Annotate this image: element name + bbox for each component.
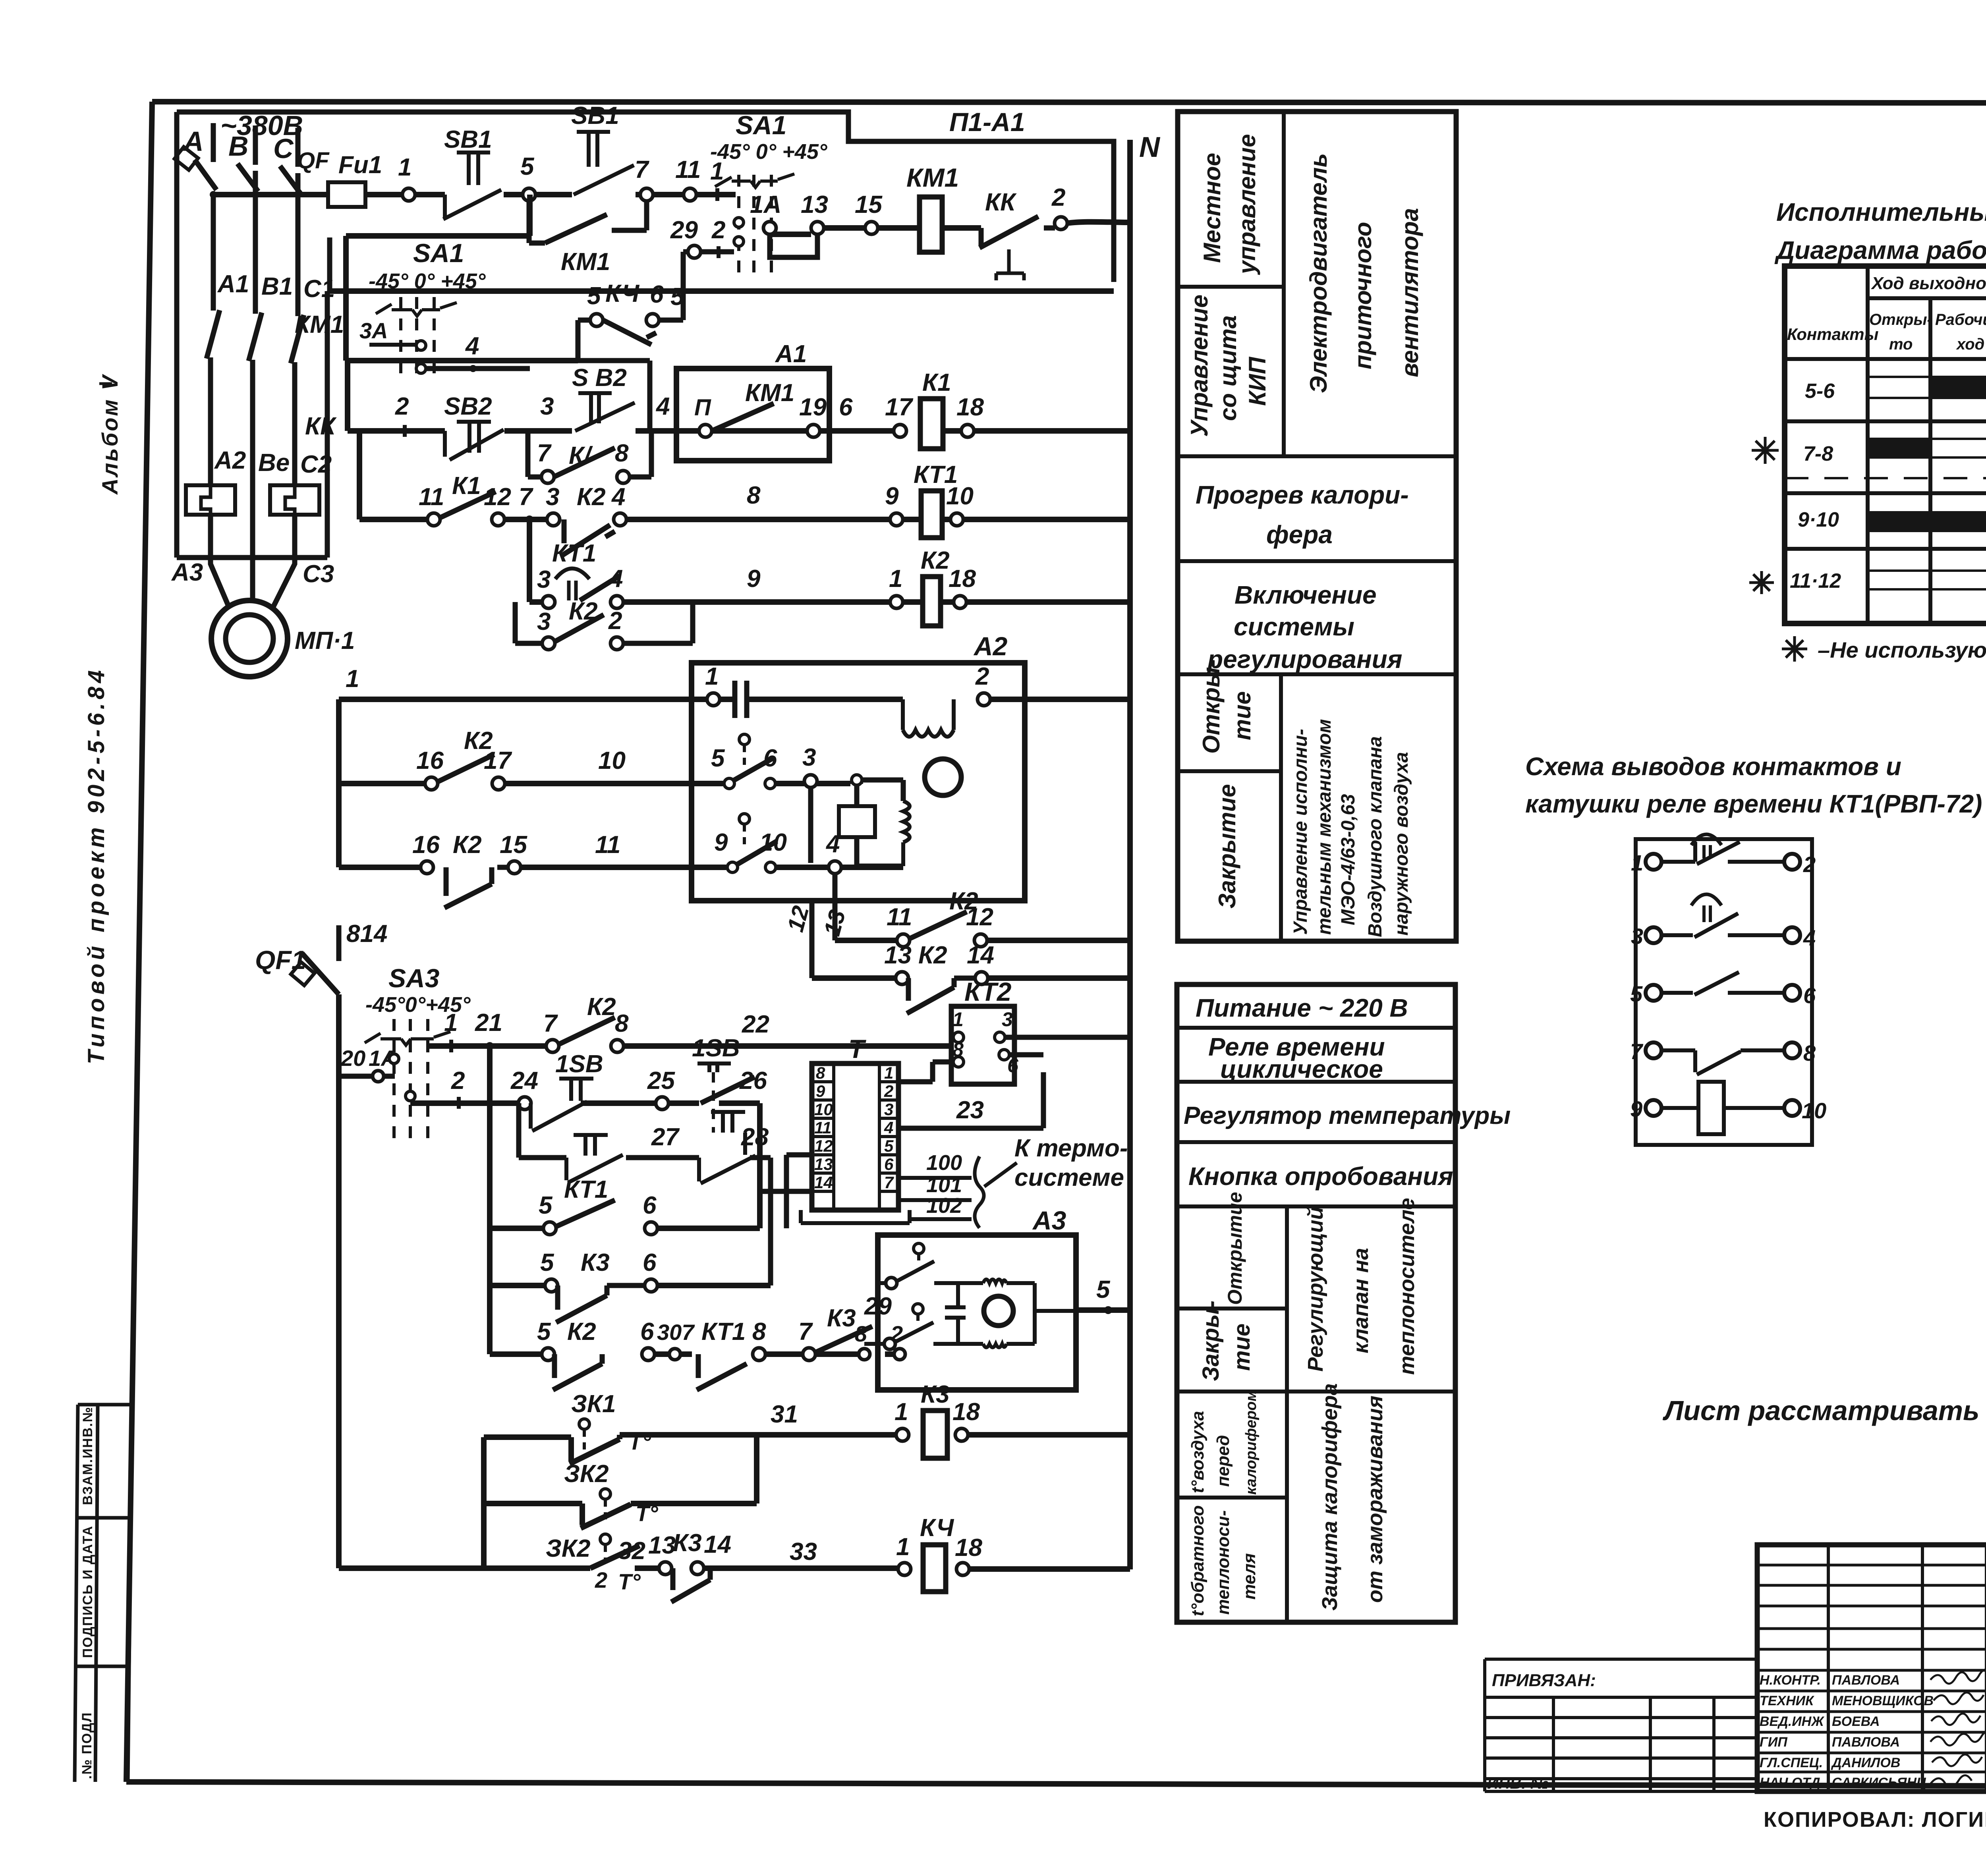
node 15 xyxy=(508,861,521,874)
phase A lower vertical xyxy=(208,357,213,485)
pins 7-8 contact NC xyxy=(1646,1042,1661,1058)
limit switch contact 9-10 xyxy=(714,814,787,872)
wire: QF1 bus down xyxy=(336,994,342,1568)
svg-text:1: 1 xyxy=(444,1009,458,1036)
svg-text:Откры-: Откры- xyxy=(1198,659,1225,754)
circuit breaker QF1 xyxy=(255,945,339,994)
svg-text:САРКИСЬЯНЦ: САРКИСЬЯНЦ xyxy=(1832,1775,1926,1790)
node 12 xyxy=(492,513,504,526)
svg-text:ЗК2: ЗК2 xyxy=(564,1460,609,1488)
svg-text:8: 8 xyxy=(816,1063,825,1082)
node 1 xyxy=(890,596,903,608)
thermal sensor contact SK2 xyxy=(484,1435,757,1528)
svg-text:Ве: Ве xyxy=(258,449,290,477)
junction phase A to bus xyxy=(210,191,217,198)
svg-text:А3: А3 xyxy=(1032,1206,1066,1235)
neutral bus N xyxy=(1127,140,1133,1569)
svg-text:КМ1: КМ1 xyxy=(906,163,959,192)
svg-text:15: 15 xyxy=(855,191,883,218)
A3 internal wiring xyxy=(933,1283,1035,1344)
svg-text:К2: К2 xyxy=(577,483,606,511)
left annex of title block xyxy=(1485,1659,1757,1792)
node 1 xyxy=(402,188,415,201)
svg-text:9: 9 xyxy=(714,829,728,856)
title block xyxy=(1757,1545,1986,1791)
wire: tap 20-1A xyxy=(339,1074,395,1079)
svg-text:t°обратного: t°обратного xyxy=(1188,1505,1207,1616)
svg-text:5: 5 xyxy=(711,745,725,772)
svg-text:100: 100 xyxy=(926,1151,962,1175)
svg-text:SА3: SА3 xyxy=(388,963,439,993)
svg-text:5: 5 xyxy=(539,1192,553,1219)
svg-text:12: 12 xyxy=(966,903,993,931)
svg-text:5: 5 xyxy=(670,283,685,311)
svg-text:С: С xyxy=(273,133,294,164)
svg-text:А2: А2 xyxy=(214,447,246,474)
svg-text:3: 3 xyxy=(537,566,551,593)
svg-text:3: 3 xyxy=(540,393,554,420)
node 16 xyxy=(421,861,433,874)
svg-text:1: 1 xyxy=(896,1533,910,1561)
wire: 23 link T to KT2 xyxy=(898,1055,1043,1128)
actuator box A2 xyxy=(692,663,1025,901)
svg-text:31: 31 xyxy=(771,1401,798,1428)
svg-text:К3: К3 xyxy=(827,1305,856,1332)
svg-text:14: 14 xyxy=(967,942,994,969)
svg-text:КК: КК xyxy=(985,189,1017,216)
svg-text:SВ1: SВ1 xyxy=(571,102,619,129)
svg-text:К3: К3 xyxy=(921,1381,950,1408)
svg-text:НАЧ.ОТД: НАЧ.ОТД xyxy=(1760,1775,1820,1790)
svg-text:КЧ: КЧ xyxy=(920,1514,954,1542)
svg-text:К2: К2 xyxy=(587,993,616,1021)
svg-text:управление: управление xyxy=(1234,134,1260,275)
svg-text:18: 18 xyxy=(949,565,976,593)
wire: sub rung 27-28 xyxy=(519,1103,771,1285)
left bus for actuator rungs xyxy=(336,699,342,867)
svg-text:Диаграмма работы контактов: Диаграмма работы контактов xyxy=(1774,236,1986,264)
svg-text:23: 23 xyxy=(956,1096,984,1124)
svg-text:6: 6 xyxy=(839,394,853,421)
svg-text:вентилятора: вентилятора xyxy=(1397,208,1423,377)
svg-text:11: 11 xyxy=(675,156,701,183)
svg-text:22: 22 xyxy=(742,1011,769,1038)
pushbutton SB2 (start, NO) xyxy=(572,364,635,431)
apparatus box A1 xyxy=(676,340,829,461)
node 2 xyxy=(1055,217,1067,230)
svg-text:17: 17 xyxy=(885,394,913,421)
svg-text:16: 16 xyxy=(412,831,440,859)
svg-text:18: 18 xyxy=(956,394,984,421)
svg-text:6: 6 xyxy=(640,1318,654,1345)
svg-text:циклическое: циклическое xyxy=(1220,1055,1383,1083)
svg-text:БОЕВА: БОЕВА xyxy=(1832,1714,1880,1729)
svg-text:QF1: QF1 xyxy=(255,945,306,975)
motor circle in A2 xyxy=(925,759,961,795)
svg-text:4: 4 xyxy=(611,483,625,511)
svg-text:3: 3 xyxy=(546,483,559,511)
svg-text:.№ ПОДЛ: .№ ПОДЛ xyxy=(79,1712,95,1779)
relay KT1 pinout diagram xyxy=(1630,834,1826,1145)
phase A lead-in xyxy=(211,123,216,162)
heater element KK phase A xyxy=(186,485,235,515)
selector switch SA1 (lower, in box) xyxy=(346,195,578,379)
svg-text:С3: С3 xyxy=(303,560,334,588)
svg-text:10: 10 xyxy=(814,1100,833,1119)
svg-text:МЕНОВЩИКОВ: МЕНОВЩИКОВ xyxy=(1832,1693,1934,1708)
svg-text:29: 29 xyxy=(670,216,698,244)
node 17 xyxy=(894,425,906,437)
svg-text:2: 2 xyxy=(395,393,409,420)
svg-text:Альбом V: Альбом V xyxy=(97,374,122,495)
capacitor in A3 xyxy=(945,1307,966,1318)
limit contact in A3 lower xyxy=(913,1304,923,1314)
svg-text:5: 5 xyxy=(884,1137,894,1155)
svg-text:К2: К2 xyxy=(567,1318,596,1345)
pins 3-4 time contact xyxy=(1646,927,1661,943)
wire: rung 5 KT1 6 xyxy=(490,1226,760,1231)
relay coil K2 xyxy=(923,577,941,626)
svg-text:С1: С1 xyxy=(303,275,335,303)
svg-text:Управление: Управление xyxy=(1186,295,1213,437)
svg-text:МП·1: МП·1 xyxy=(295,627,355,654)
svg-text:8: 8 xyxy=(1803,1040,1816,1065)
svg-text:от замораживания: от замораживания xyxy=(1363,1395,1387,1603)
transformer winding in A2 xyxy=(903,699,954,737)
relay contact K1 self-hold xyxy=(528,431,651,483)
svg-text:КЧ: КЧ xyxy=(605,280,639,307)
svg-text:Откры-: Откры- xyxy=(1869,311,1932,328)
svg-text:13: 13 xyxy=(819,907,850,938)
svg-text:5: 5 xyxy=(520,153,535,180)
svg-text:Защита калорифера: Защита калорифера xyxy=(1318,1383,1342,1611)
svg-text:Управление исполни-: Управление исполни- xyxy=(1290,729,1311,935)
svg-text:3: 3 xyxy=(802,744,816,771)
svg-text:QF: QF xyxy=(297,148,330,174)
svg-text:ПРИВЯЗАН:: ПРИВЯЗАН: xyxy=(1492,1671,1596,1690)
svg-text:17: 17 xyxy=(484,747,512,774)
svg-text:2: 2 xyxy=(1803,852,1816,877)
phase B lead-in xyxy=(253,125,258,165)
svg-text:SА1: SА1 xyxy=(413,238,464,268)
svg-text:Н.КОНТР.: Н.КОНТР. xyxy=(1760,1673,1821,1688)
wire: KT2 pin3 to N xyxy=(1005,1035,1130,1040)
wire: KT1 delayed contact rung to K2 coil xyxy=(529,519,1130,602)
svg-text:7: 7 xyxy=(537,440,552,467)
svg-text:Регулятор температуры: Регулятор температуры xyxy=(1184,1102,1511,1129)
svg-text:25: 25 xyxy=(647,1067,675,1094)
svg-text:ход: ход xyxy=(1956,336,1984,353)
svg-text:11: 11 xyxy=(595,831,620,859)
svg-text:тие: тие xyxy=(1229,691,1256,740)
svg-text:С2: С2 xyxy=(300,451,332,478)
thermal relay contact KK xyxy=(979,189,1055,280)
node 2 tick xyxy=(717,246,721,258)
svg-text:системе: системе xyxy=(1014,1164,1124,1191)
svg-text:10: 10 xyxy=(946,483,974,510)
pins 9-10 coil xyxy=(1646,1100,1661,1116)
left control bus xyxy=(487,1046,493,1354)
node 1 tick xyxy=(715,188,719,201)
svg-text:К2: К2 xyxy=(453,831,482,859)
svg-text:2: 2 xyxy=(451,1067,465,1094)
schematic outer border xyxy=(177,112,1114,558)
relay coil K4 xyxy=(898,1563,911,1575)
svg-text:К1: К1 xyxy=(452,472,481,500)
svg-text:7: 7 xyxy=(543,1010,558,1037)
svg-text:5: 5 xyxy=(1630,981,1643,1006)
svg-text:1: 1 xyxy=(705,663,719,690)
svg-text:со щита: со щита xyxy=(1215,315,1241,421)
relay contact K2 bypass xyxy=(515,598,693,650)
svg-text:КМ1: КМ1 xyxy=(561,248,610,276)
wire: rung 2-24-1SB-25-1SB-26 xyxy=(410,1103,760,1228)
svg-text:КИП: КИП xyxy=(1244,356,1271,406)
svg-text:3: 3 xyxy=(537,608,551,635)
svg-text:7: 7 xyxy=(884,1173,894,1192)
junction to KT1 branch xyxy=(525,515,533,523)
wire: rung 13 K3 14 33 to KCh coil xyxy=(658,1565,898,1571)
svg-text:7: 7 xyxy=(798,1318,813,1345)
wire: A2 outputs down xyxy=(812,874,835,978)
svg-text:ПОДПИСЬ И ДАТА: ПОДПИСЬ И ДАТА xyxy=(80,1525,95,1658)
pushbutton 1SB (NC) xyxy=(531,1050,603,1131)
svg-text:2: 2 xyxy=(884,1082,893,1100)
svg-text:ВЕД.ИНЖ: ВЕД.ИНЖ xyxy=(1760,1714,1825,1729)
pushbutton SB2 (stop, NC) xyxy=(444,393,504,500)
svg-text:Т°: Т° xyxy=(618,1569,641,1594)
left margin stamp column xyxy=(75,1405,132,1782)
svg-text:1SВ: 1SВ xyxy=(692,1035,740,1062)
limit switch contact 5-6 xyxy=(711,734,777,789)
time relay KT2 box xyxy=(951,977,1019,1084)
svg-text:регулирования: регулирования xyxy=(1207,645,1402,674)
svg-text:11·12: 11·12 xyxy=(1790,569,1841,593)
phase C vertical xyxy=(296,173,301,316)
node 4 xyxy=(614,513,626,526)
wire: feed line 1 to actuator A2 xyxy=(339,697,1130,702)
svg-text:К3: К3 xyxy=(581,1249,610,1276)
svg-text:SВ2: SВ2 xyxy=(444,393,492,420)
node 18 xyxy=(954,596,966,608)
svg-text:Закрытие: Закрытие xyxy=(1214,784,1240,909)
function table upper xyxy=(1178,112,1456,941)
svg-text:катушки реле времени КТ1(РВП-7: катушки реле времени КТ1(РВП-72) xyxy=(1525,789,1982,818)
thermo system outputs 100 101 102 xyxy=(898,1135,1128,1228)
svg-text:1: 1 xyxy=(1631,850,1643,875)
svg-text:ДАНИЛОВ: ДАНИЛОВ xyxy=(1831,1755,1900,1770)
svg-text:наружного воздуха: наружного воздуха xyxy=(1391,752,1412,936)
pushbutton contact 27 xyxy=(566,1135,623,1183)
node 16 xyxy=(425,777,438,790)
svg-text:А1: А1 xyxy=(217,270,249,298)
svg-text:К2: К2 xyxy=(921,547,950,574)
svg-text:ГЛ.СПЕЦ.: ГЛ.СПЕЦ. xyxy=(1760,1755,1823,1770)
thermal sensor contact 3K2 lower xyxy=(339,1534,658,1594)
svg-text:7-8: 7-8 xyxy=(1803,442,1833,465)
inductor bottom xyxy=(983,1344,1007,1347)
svg-text:14: 14 xyxy=(704,1531,731,1558)
selector switch SA3 xyxy=(365,963,471,1140)
relay coil K3 xyxy=(896,1428,909,1441)
svg-text:ТЕХНИК: ТЕХНИК xyxy=(1760,1693,1814,1708)
svg-text:тие: тие xyxy=(1229,1324,1255,1371)
node 17 xyxy=(492,777,505,790)
phase C lower vertical xyxy=(292,362,298,485)
svg-text:Типовой проект 902-5-6.84: Типовой проект 902-5-6.84 xyxy=(83,667,109,1064)
node 3 xyxy=(804,775,817,787)
svg-text:1: 1 xyxy=(894,1398,908,1426)
svg-text:Электродвигатель: Электродвигатель xyxy=(1305,153,1332,393)
svg-text:2: 2 xyxy=(975,663,989,690)
wire: KT2 pin8 tap xyxy=(898,1062,953,1082)
svg-text:2: 2 xyxy=(595,1567,607,1592)
svg-text:4: 4 xyxy=(884,1118,893,1137)
wire: rung 5 K2 6 307 KT1 8 7 K3 29 8 2 xyxy=(490,1351,894,1357)
svg-text:фера: фера xyxy=(1266,520,1333,549)
svg-text:Fu1: Fu1 xyxy=(338,151,382,179)
wire: A3 to N rung 5 xyxy=(1076,1307,1130,1313)
contactor KM1 main contacts xyxy=(207,310,344,363)
phase B lower vertical xyxy=(250,360,255,558)
svg-text:МЭО-4/63-0,63: МЭО-4/63-0,63 xyxy=(1338,794,1359,925)
svg-text:102: 102 xyxy=(926,1194,962,1218)
svg-text:5-6: 5-6 xyxy=(1805,380,1835,403)
wire: rung 5 K3 6 xyxy=(490,1283,771,1288)
svg-text:ГИП: ГИП xyxy=(1760,1735,1788,1750)
wire: main control bus rung 1 xyxy=(213,192,736,197)
svg-text:-45° 0° +45°: -45° 0° +45° xyxy=(369,269,486,293)
svg-text:10: 10 xyxy=(598,747,626,774)
wire: link to SB2 rung xyxy=(578,361,650,431)
svg-text:7: 7 xyxy=(1630,1039,1644,1064)
svg-text:2: 2 xyxy=(608,607,622,635)
svg-text:теплоносителе: теплоносителе xyxy=(1395,1198,1419,1375)
svg-text:6: 6 xyxy=(650,281,664,308)
selector switch SA1 (upper) xyxy=(710,110,827,278)
svg-text:9·10: 9·10 xyxy=(1798,508,1839,531)
svg-text:33: 33 xyxy=(790,1538,817,1565)
svg-text:перед: перед xyxy=(1213,1435,1233,1487)
wire: K2/KT1 rung xyxy=(359,431,1130,519)
svg-text:теля: теля xyxy=(1240,1553,1259,1600)
svg-text:К термо-: К термо- xyxy=(1014,1135,1128,1162)
svg-text:6: 6 xyxy=(763,745,777,772)
svg-text:32: 32 xyxy=(618,1537,645,1565)
svg-text:10: 10 xyxy=(1802,1098,1826,1123)
node 13 xyxy=(811,222,824,234)
svg-text:12: 12 xyxy=(814,1137,833,1155)
svg-text:t°воздуха: t°воздуха xyxy=(1188,1411,1207,1493)
node 11 xyxy=(684,188,696,201)
tick 2 xyxy=(403,425,407,437)
svg-text:13: 13 xyxy=(814,1155,833,1173)
relay contact K2 (NC) xyxy=(444,867,508,908)
note: not used xyxy=(1782,636,1986,662)
wire: rung 16-15-11 limit switch close xyxy=(339,865,903,870)
svg-text:5: 5 xyxy=(540,1249,554,1276)
wire: T box links left xyxy=(760,1155,812,1228)
svg-text:ПАВЛОВА: ПАВЛОВА xyxy=(1832,1673,1900,1688)
svg-text:Прогрев калори-: Прогрев калори- xyxy=(1196,481,1409,509)
svg-text:1: 1 xyxy=(889,565,902,593)
brake relay box in A2 xyxy=(839,806,875,837)
svg-text:11: 11 xyxy=(887,903,912,931)
pushbutton SB1 (stop, NC) xyxy=(443,126,501,219)
svg-text:-45° 0° +45°: -45° 0° +45° xyxy=(710,140,827,164)
pushbutton SB1 (start, NO) xyxy=(571,102,634,195)
svg-text:26: 26 xyxy=(739,1067,767,1094)
svg-text:ИНВ. №: ИНВ. № xyxy=(1487,1775,1549,1792)
svg-text:16: 16 xyxy=(416,747,444,774)
svg-text:9: 9 xyxy=(816,1082,825,1100)
contactor aux contact KM1 (parallel with SB1) xyxy=(529,201,647,276)
node 4 xyxy=(829,861,841,874)
svg-text:К2: К2 xyxy=(918,942,947,969)
svg-text:18: 18 xyxy=(952,1398,980,1426)
svg-text:15: 15 xyxy=(500,831,527,859)
svg-text:9: 9 xyxy=(1630,1096,1642,1121)
actuator internal lower return xyxy=(857,864,903,869)
svg-text:Т: Т xyxy=(848,1034,866,1063)
svg-text:11: 11 xyxy=(419,483,444,511)
motor MP-1 xyxy=(211,600,355,677)
fuse Fu1 xyxy=(328,182,365,207)
svg-text:6: 6 xyxy=(1007,1054,1019,1077)
svg-text:27: 27 xyxy=(651,1123,680,1151)
contact blade K2 xyxy=(437,755,494,782)
relay contact K2 (NC) xyxy=(547,483,615,555)
svg-text:10: 10 xyxy=(759,829,787,856)
svg-text:S В2: S В2 xyxy=(572,364,627,392)
svg-text:13: 13 xyxy=(884,942,912,969)
svg-text:12: 12 xyxy=(484,483,511,511)
node 6 xyxy=(646,314,659,326)
svg-text:N: N xyxy=(1139,131,1161,163)
svg-text:4: 4 xyxy=(655,393,670,420)
svg-text:КТ2: КТ2 xyxy=(964,977,1012,1006)
svg-text:1: 1 xyxy=(952,1008,964,1031)
svg-text:7: 7 xyxy=(635,156,649,183)
svg-text:6: 6 xyxy=(643,1192,657,1219)
svg-text:4: 4 xyxy=(825,830,840,858)
phase A vertical xyxy=(211,195,216,311)
svg-text:6: 6 xyxy=(884,1155,894,1173)
svg-text:Рабочий: Рабочий xyxy=(1935,311,1986,328)
svg-text:ЗК2: ЗК2 xyxy=(546,1535,590,1562)
svg-text:КОПИРОВАЛ: ЛОГИНОВА: КОПИРОВАЛ: ЛОГИНОВА xyxy=(1764,1808,1986,1832)
svg-text:2: 2 xyxy=(1051,184,1065,211)
svg-text:Ход выходного вала: Ход выходного вала xyxy=(1870,274,1986,293)
svg-text:К1: К1 xyxy=(922,369,951,396)
inductor top xyxy=(983,1280,1007,1283)
circuit breaker QF xyxy=(174,147,330,194)
node 5 xyxy=(523,188,535,201)
pins 1-2 time contact xyxy=(1646,854,1661,870)
svg-text:Схема выводов контактов и: Схема выводов контактов и xyxy=(1525,752,1901,781)
svg-text:ВЗАМ.ИНВ.№: ВЗАМ.ИНВ.№ xyxy=(80,1406,95,1505)
heater element KK phase C xyxy=(270,485,319,515)
svg-text:клапан на: клапан на xyxy=(1349,1248,1373,1353)
node 29 xyxy=(688,245,701,258)
time relay coil KT1 xyxy=(921,491,942,538)
svg-text:ЗК1: ЗК1 xyxy=(571,1390,616,1418)
limit contact in A3 upper xyxy=(914,1243,924,1254)
svg-text:А3: А3 xyxy=(171,559,203,586)
svg-text:КК: КК xyxy=(305,413,337,440)
inductor in A2 xyxy=(903,801,910,866)
SA1 box xyxy=(346,195,578,361)
